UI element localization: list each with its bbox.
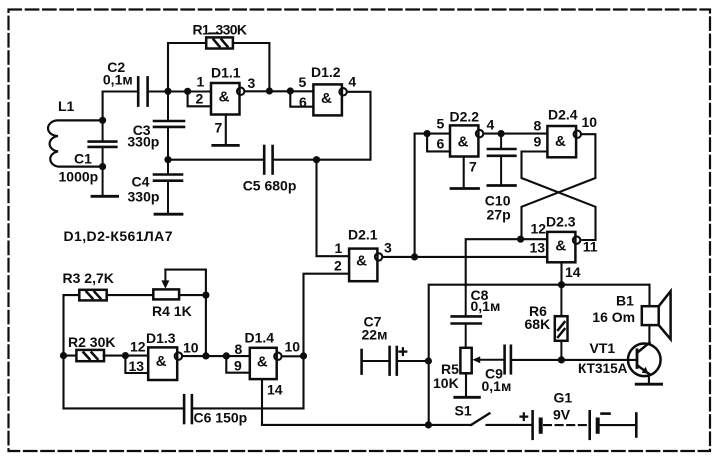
svg-text:10: 10 <box>183 340 199 356</box>
wires C6 row <box>64 356 304 409</box>
emitter arrow <box>642 367 649 374</box>
svg-text:68K: 68K <box>525 316 551 332</box>
wire C5 node to D2.1 pin 1 <box>317 160 350 257</box>
battery plus mark <box>521 413 528 420</box>
svg-text:D2.4: D2.4 <box>548 107 578 123</box>
svg-text:10: 10 <box>582 114 598 130</box>
svg-text:L1: L1 <box>58 98 75 114</box>
node D1.3 out <box>202 352 209 359</box>
svg-text:8: 8 <box>235 341 243 357</box>
wire D1.3 out to D1.4 <box>183 355 250 357</box>
svg-text:8: 8 <box>534 118 542 134</box>
wire D2.3 pin 12 to C8 drop <box>466 239 548 285</box>
svg-text:2: 2 <box>196 91 204 107</box>
switch S1 <box>471 413 489 425</box>
wire D2.4 pin 9 cross-couple from D2.3 out <box>522 152 596 241</box>
svg-text:22м: 22м <box>362 327 388 343</box>
capacitor C10 <box>488 134 516 186</box>
battery minus mark <box>602 412 610 415</box>
capacitor C3 <box>154 92 184 160</box>
node R4 right <box>202 292 209 299</box>
gate D1.4 pin 14 drop <box>261 379 263 425</box>
ground bar under C10 <box>488 184 516 187</box>
svg-text:D2.2: D2.2 <box>450 109 480 125</box>
resistor R1 feedback wires <box>168 43 269 91</box>
capacitor C5 <box>264 146 272 174</box>
wires R3 row <box>64 295 154 408</box>
svg-text:6: 6 <box>299 94 307 110</box>
svg-text:7: 7 <box>215 120 223 136</box>
wire D1.1 pin 2 branch <box>188 92 211 107</box>
label R1 underscore <box>208 32 219 34</box>
svg-text:5: 5 <box>299 74 307 90</box>
node C7 right <box>425 357 432 364</box>
gate D2.2 <box>450 125 478 156</box>
capacitor C6 <box>184 395 192 423</box>
svg-text:D1.3: D1.3 <box>146 330 176 346</box>
svg-text:1000p: 1000p <box>59 169 99 185</box>
wire D2.2 out to D2.4 pin 8 <box>485 133 548 135</box>
wire C9 to base node <box>511 359 637 361</box>
node L1/C1 top <box>99 117 106 124</box>
svg-text:D1.1: D1.1 <box>211 65 241 81</box>
svg-text:&: & <box>458 134 469 151</box>
svg-text:&: & <box>555 133 566 150</box>
node C2/R1/C3 <box>164 88 171 95</box>
svg-text:D1,D2-К561ЛА7: D1,D2-К561ЛА7 <box>64 228 173 244</box>
svg-text:C6 150p: C6 150p <box>194 410 248 426</box>
svg-text:9V: 9V <box>553 406 571 422</box>
wires R2 row <box>64 355 149 357</box>
svg-text:S1: S1 <box>455 403 472 419</box>
svg-text:330p: 330p <box>128 189 160 205</box>
wire D2.1 out to D2.3 pin 13 <box>384 256 548 258</box>
node R1 right <box>266 87 273 94</box>
svg-text:R4 1K: R4 1K <box>152 303 192 319</box>
svg-text:0,1м: 0,1м <box>103 71 133 87</box>
wire D1.3 pin 13 branch <box>125 356 148 373</box>
wire R4 node down to D1.3 out <box>205 295 207 356</box>
potentiometer R5 <box>460 348 471 374</box>
gate D2.1 <box>349 249 377 282</box>
capacitor C9 <box>505 346 511 374</box>
ground bar under C1 <box>92 195 118 198</box>
svg-text:КТ315А: КТ315А <box>578 360 628 376</box>
svg-text:&: & <box>356 252 367 269</box>
capacitor C7 <box>362 347 397 375</box>
wire D2.2 pin 6 branch <box>427 134 450 152</box>
svg-text:2: 2 <box>334 258 342 274</box>
resistor R6 <box>555 316 568 341</box>
wire D1.4 out node <box>283 355 304 357</box>
svg-text:11: 11 <box>583 239 598 255</box>
svg-text:&: & <box>156 353 167 370</box>
svg-text:4: 4 <box>487 117 495 133</box>
svg-text:G1: G1 <box>554 390 573 406</box>
svg-text:3: 3 <box>248 75 256 91</box>
gate D1.1 <box>211 83 240 115</box>
svg-text:12: 12 <box>130 339 146 355</box>
capacitor C4 <box>154 160 182 214</box>
svg-text:12: 12 <box>531 221 547 237</box>
svg-text:&: & <box>321 90 332 107</box>
svg-text:0,1м: 0,1м <box>471 298 501 314</box>
node D2.3 pin 12 <box>517 236 524 243</box>
wire C3 node to C5 <box>168 159 264 161</box>
node D2.1 out <box>411 253 418 260</box>
wire D1.2 pin 6 branch <box>290 92 313 107</box>
svg-text:27p: 27p <box>487 207 511 223</box>
node D1.4 pins tie <box>223 352 230 359</box>
svg-text:D2.1: D2.1 <box>348 227 378 243</box>
bottom rail to switch <box>262 424 471 426</box>
capacitor C8 <box>452 285 481 348</box>
node R6 bottom <box>558 356 565 363</box>
svg-text:0,1м: 0,1м <box>482 378 512 394</box>
svg-text:14: 14 <box>565 264 581 280</box>
svg-text:1: 1 <box>335 240 343 256</box>
node C5 right <box>313 156 320 163</box>
gate D1.1 pin 7 ground <box>225 115 227 146</box>
wire D2.4 out cross-couple to D2.3 pin 12 <box>522 134 596 239</box>
svg-text:D2.3: D2.3 <box>546 214 576 230</box>
svg-text:13: 13 <box>129 358 145 374</box>
gate D2.3 <box>547 232 575 262</box>
inductor L1 <box>48 120 103 166</box>
resistor R3 <box>79 290 106 301</box>
resistor R2 <box>76 350 104 361</box>
svg-text:14: 14 <box>267 382 283 398</box>
svg-text:VT1: VT1 <box>590 340 616 356</box>
svg-text:&: & <box>219 89 230 106</box>
node pin 14 rail <box>558 281 565 288</box>
battery G1 <box>533 411 637 439</box>
gate D1.2 <box>313 84 342 115</box>
node R2 right / D1.3 pins tie <box>122 352 129 359</box>
capacitor C1 <box>89 120 117 196</box>
node L1/C1 bottom <box>99 163 106 170</box>
wire D2.1 out up to D2.2 <box>415 134 450 257</box>
wiper arrow R5 <box>480 359 505 361</box>
svg-text:10K: 10K <box>433 375 459 391</box>
svg-text:13: 13 <box>530 240 546 256</box>
node D1.1 pins 1-2 tie <box>184 88 191 95</box>
transistor VT1 <box>628 344 661 377</box>
svg-text:R1 330K: R1 330K <box>193 22 248 38</box>
svg-text:C1: C1 <box>74 151 92 167</box>
ground bar at emitter <box>636 383 661 386</box>
svg-text:C5 680p: C5 680p <box>243 178 297 194</box>
ground bar under C4 <box>155 213 182 216</box>
node C3/C4/C5 <box>164 156 171 163</box>
gate D1.3 <box>148 347 177 380</box>
speaker B1 <box>642 306 659 325</box>
resistor R1 <box>206 37 233 48</box>
svg-text:10: 10 <box>285 339 301 355</box>
node D1.2 pins 5-6 tie <box>287 87 294 94</box>
node D2.2 pins 5-6 tie <box>424 130 431 137</box>
svg-text:5: 5 <box>437 116 445 132</box>
node bottom rail <box>425 421 432 428</box>
svg-text:3: 3 <box>384 240 392 256</box>
svg-text:330p: 330p <box>127 133 159 149</box>
wire D1.1 out to D1.2 <box>246 90 314 92</box>
wire D1.2 out down to C5 line <box>273 92 371 160</box>
wiper arrow R4 <box>164 270 166 281</box>
svg-text:C4: C4 <box>132 174 150 190</box>
svg-text:9: 9 <box>534 134 542 150</box>
capacitor C2 <box>138 77 147 105</box>
wire C2 to D1.1 input <box>148 90 211 92</box>
svg-text:6: 6 <box>437 136 445 152</box>
gate D2.3 pin 14 to rail <box>560 262 562 284</box>
svg-text:16 Om: 16 Om <box>592 309 635 325</box>
potentiometer R4 <box>153 289 179 299</box>
svg-text:R3 2,7K: R3 2,7K <box>63 270 114 286</box>
wire D1.4 pin 9 branch <box>226 356 250 373</box>
gate D2.4 <box>547 126 576 157</box>
svg-text:4: 4 <box>348 74 356 90</box>
node R2 left <box>60 352 67 359</box>
wire D2.1 pin 2 from D1.4 out <box>304 274 350 356</box>
svg-text:7: 7 <box>469 159 477 175</box>
svg-text:R2 30K: R2 30K <box>68 334 115 350</box>
wiper loop R4 <box>165 270 206 296</box>
svg-text:D1.4: D1.4 <box>245 330 275 346</box>
node C10 top <box>498 130 505 137</box>
wire C1 top to C2 <box>103 92 138 121</box>
gate D1.4 <box>250 348 277 379</box>
svg-text:&: & <box>555 238 566 255</box>
gate D2.2 pin 7 ground <box>463 157 465 189</box>
supply rail <box>429 285 650 425</box>
node D1.4 out <box>300 352 307 359</box>
svg-text:9: 9 <box>234 358 242 374</box>
svg-text:&: & <box>257 353 268 370</box>
svg-text:B1: B1 <box>616 293 634 309</box>
svg-text:D1.2: D1.2 <box>311 64 341 80</box>
plus mark at C7 <box>400 348 407 355</box>
svg-text:1: 1 <box>197 74 205 90</box>
